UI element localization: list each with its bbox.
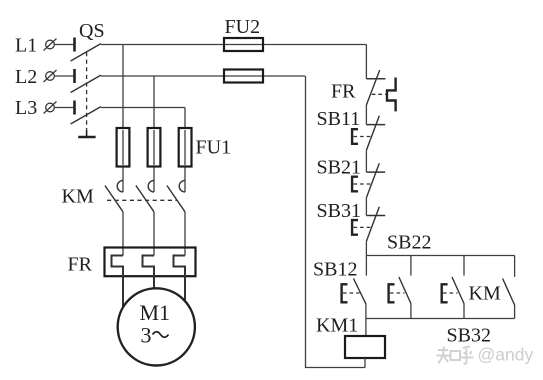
pushbutton SB12 dashed link [343, 292, 360, 294]
wire phase B drop [153, 76, 155, 192]
pushbutton SB11 NC bar [366, 124, 385, 126]
pushbutton SB31 NC bar [366, 215, 385, 217]
pushbutton SB11 dashed link [354, 136, 372, 138]
motor M1 circle [118, 288, 195, 365]
contactor KM linkage dashed [107, 199, 178, 201]
wire branch SB22 top [410, 256, 412, 276]
contactor KM main contact 2 blade [136, 186, 154, 212]
fuse FU2 element 1 [224, 38, 263, 51]
contactor KM main contact 3 blade [167, 186, 185, 212]
wire L3 to QS [54, 107, 74, 109]
wire parallel bottom bus [366, 318, 515, 320]
wire SB11 to SB21 [365, 150, 367, 172]
svg-text:M1: M1 [140, 300, 171, 325]
switch QS pole 2 fixed contact [73, 69, 76, 83]
contactor KM main contact 2 arc [148, 180, 154, 192]
wire phase 1 bus [101, 44, 367, 46]
contactor KM main contact 1 arc [117, 180, 123, 192]
svg-text:SB31: SB31 [317, 200, 361, 222]
wire SB12 to bottom bus [365, 304, 367, 337]
wire KM1 pole2 to FR [153, 212, 155, 256]
coil KM1 [345, 336, 385, 358]
switch QS pole 2 blade [71, 75, 101, 92]
svg-text:SB32: SB32 [447, 325, 491, 347]
pushbutton SB12 NO blade [354, 279, 366, 304]
wire SB21 to SB31 [365, 198, 367, 216]
pushbutton SB31 NC blade [366, 207, 379, 242]
overload relay FR box [105, 248, 196, 277]
switch QS handle stub [86, 131, 88, 138]
wire branch KM top [514, 256, 516, 277]
wire FR to SB11 [365, 105, 367, 125]
fuse FU2 element 2 [224, 70, 263, 83]
pushbutton SB11 NC blade [366, 116, 379, 151]
pushbutton SB22 NO blade [399, 277, 411, 304]
wire L2 to QS [54, 75, 74, 77]
pushbutton SB11 actuator [352, 129, 358, 144]
svg-text:QS: QS [79, 20, 105, 42]
terminal L3 [44, 102, 57, 114]
svg-text:SB22: SB22 [387, 232, 431, 254]
svg-text:FR: FR [331, 81, 356, 103]
svg-text:SB21: SB21 [317, 157, 361, 179]
overload relay FR heater 2 [143, 256, 155, 296]
svg-text:SB12: SB12 [313, 259, 357, 281]
terminal L1 [44, 39, 57, 51]
svg-text:SB11: SB11 [317, 108, 361, 130]
pushbutton SB21 actuator [352, 177, 358, 192]
wire SB31 to SB12 [365, 241, 367, 275]
svg-text:L1: L1 [15, 35, 37, 57]
wire parallel top bus [366, 255, 514, 257]
switch QS pole 3 blade [71, 107, 101, 124]
fuse FU1 element 2 [148, 128, 161, 167]
svg-text:KM1: KM1 [316, 315, 358, 337]
pushbutton SB32 actuator [442, 284, 448, 302]
pushbutton SB32 NO blade [452, 277, 464, 304]
relay FR trip dashed link [372, 93, 387, 95]
wire phase 2 bus [101, 75, 305, 77]
pushbutton SB21 NC bar [366, 171, 385, 173]
pushbutton SB22 dashed link [390, 292, 405, 294]
wire through FU1-1 [122, 130, 124, 165]
svg-text:L2: L2 [15, 66, 37, 88]
svg-text:FR: FR [68, 254, 93, 276]
wire phase A drop [122, 45, 124, 193]
pushbutton SB22 actuator [389, 284, 395, 302]
wire branch SB32 top [463, 256, 465, 276]
svg-text:FU2: FU2 [225, 16, 261, 38]
fuse FU1 element 1 [117, 128, 130, 167]
wire branch SB32 bottom [463, 304, 465, 319]
wire branch KM bottom [514, 305, 516, 319]
wire phase C drop [184, 108, 186, 193]
wire through FU1-3 [184, 130, 186, 165]
contact KM NO blade [503, 279, 515, 306]
pushbutton SB32 dashed link [443, 292, 458, 294]
switch QS handle bar [78, 136, 95, 139]
switch QS linkage dashed [86, 52, 88, 131]
switch QS pole 1 blade [71, 44, 101, 61]
relay FR trip symbol [387, 78, 396, 112]
relay contact FR NC blade [366, 70, 379, 105]
wire control chain top [365, 45, 367, 79]
svg-text:KM: KM [62, 186, 94, 208]
svg-text:L3: L3 [15, 97, 37, 119]
relay contact FR NC bar [366, 78, 385, 80]
motor M1 tilde [153, 332, 169, 338]
contactor KM main contact 1 blade [105, 186, 123, 212]
wire coil to bottom [364, 358, 366, 368]
contactor KM main contact 3 arc [179, 180, 185, 192]
fuse FU1 element 3 [179, 128, 192, 167]
wire phase 3 bus [101, 107, 185, 109]
terminal L2 [44, 70, 57, 82]
wire control left rail down [306, 76, 366, 368]
overload relay FR heater 3 [174, 256, 186, 311]
wire through FU1-2 [153, 130, 155, 165]
wire KM1 pole3 to FR [184, 212, 186, 256]
pushbutton SB31 actuator [352, 220, 358, 235]
overload relay FR heater 1 [112, 256, 124, 311]
pushbutton SB31 dashed link [354, 226, 372, 228]
watermark zhihu glyphs [437, 347, 474, 364]
wire branch SB22 bottom [410, 304, 412, 319]
pushbutton SB21 dashed link [354, 183, 372, 185]
svg-text:3: 3 [141, 323, 152, 348]
pushbutton SB12 actuator [342, 284, 348, 302]
wire KM1 pole1 to FR [122, 212, 124, 256]
switch QS pole 1 fixed contact [73, 38, 76, 52]
switch QS pole 3 fixed contact [73, 101, 76, 115]
pushbutton SB21 NC blade [366, 163, 379, 198]
svg-text:FU1: FU1 [196, 137, 232, 159]
wire L1 to QS [54, 44, 74, 46]
svg-text:KM: KM [469, 283, 501, 305]
svg-text:@andy: @andy [478, 345, 534, 365]
